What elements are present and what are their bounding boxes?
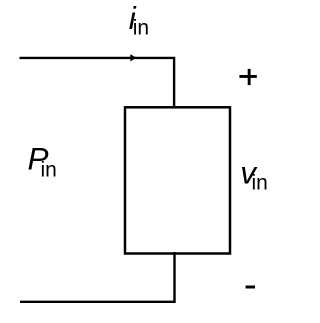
box: two-terminal network element — [125, 107, 230, 253]
arrowhead: current direction marker on top wire — [130, 54, 136, 61]
wire: bottom lead from box bottom to lower-left return — [20, 252, 175, 302]
label -: negative terminal polarity — [246, 286, 255, 289]
label +: positive terminal polarity — [239, 69, 256, 85]
svg-text:in: in — [252, 172, 268, 195]
svg-text:in: in — [41, 159, 57, 182]
svg-text:in: in — [133, 17, 149, 40]
wire: top input lead with corner down to box top — [20, 58, 175, 107]
